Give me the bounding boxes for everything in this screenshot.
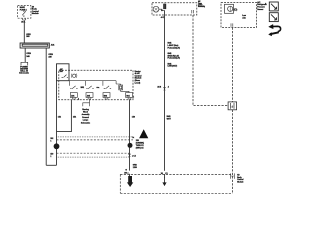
pin B below fuse box (23, 18, 26, 20)
fuse F1 label (20, 6, 28, 11)
page reference icon 1 (269, 2, 278, 11)
svg-text:B02: B02 (104, 95, 107, 97)
grommet dot right (128, 143, 133, 148)
svg-text:1250: 1250 (133, 167, 137, 169)
switch 1 (69, 81, 77, 89)
svg-text:M01: M01 (81, 87, 84, 89)
ground label left (124, 171, 132, 175)
sensor dashed wire down (232, 28, 234, 102)
page reference icon 2 (269, 13, 278, 22)
wire HVAC internal vertical (left long wire) (56, 81, 58, 166)
mechanization dashed wire from pin N (193, 15, 228, 106)
internal bus (69, 80, 116, 82)
svg-text:Assembly: Assembly (82, 113, 90, 116)
svg-text:Module: Module (237, 182, 243, 184)
BCM label (237, 174, 244, 183)
svg-text:2x: 2x (132, 137, 134, 139)
svg-text:4: 4 (78, 97, 79, 100)
wire label ORN 340 (26, 34, 31, 38)
svg-text:30: 30 (161, 173, 163, 175)
wire label ORN 440 (48, 54, 53, 58)
svg-text:Schematics: Schematics (81, 121, 90, 124)
junction symbol on dashed edge (230, 173, 234, 178)
svg-text:A05: A05 (87, 94, 90, 97)
bottom dashed ground box (120, 174, 232, 193)
svg-text:ORN: ORN (26, 53, 31, 55)
svg-text:side: side (242, 17, 245, 19)
warning triangle (139, 129, 148, 138)
sensor transducer circle (228, 6, 233, 11)
svg-text:Level): Level) (135, 82, 141, 84)
svg-text:30 A: 30 A (21, 21, 26, 24)
svg-text:1: 1 (50, 156, 51, 158)
ground arrow 1 (127, 176, 133, 187)
svg-text:4 C1: 4 C1 (161, 16, 165, 19)
svg-text:Schematic: Schematic (19, 72, 30, 75)
wire label mid (167, 115, 172, 120)
svg-text:5-GN (GXY): 5-GN (GXY) (168, 66, 178, 68)
svg-text:Sensor: Sensor (257, 9, 263, 11)
resistor block component (116, 81, 129, 93)
svg-text:Forward: Forward (82, 117, 89, 119)
svg-text:1: 1 (50, 141, 51, 143)
connector bracket under pin 2 (83, 100, 90, 107)
wire compressor down (164, 10, 166, 178)
sensor text (242, 15, 246, 19)
sensor pin (231, 23, 233, 26)
svg-text:(GRY) C4: (GRY) C4 (136, 146, 145, 149)
wire pin4 down (129, 100, 131, 177)
in-line connector on wire (128, 154, 131, 157)
connector reference label (19, 67, 30, 75)
bulkhead dashed lines (57, 137, 134, 157)
label right of grommet (136, 140, 145, 149)
svg-text:Module: Module (32, 13, 40, 15)
compressor clutch coil (153, 6, 159, 12)
pin box 4 (126, 93, 134, 99)
svg-text:x: x (133, 97, 134, 99)
wire label ORN (26, 53, 31, 58)
svg-text:C1: C1 (165, 173, 167, 175)
fuse F1 (underhood fuse block, dashed) (18, 6, 31, 19)
ground arrow 2 (162, 178, 166, 187)
wire bar to connector (24, 48, 26, 62)
relay contact symbols (62, 75, 69, 78)
sensor inner box (225, 4, 234, 13)
svg-text:vm.: vm. (96, 87, 100, 89)
wire pin1 down to long wire (57, 100, 72, 132)
diode element (163, 4, 166, 9)
compressor dashed box (152, 3, 197, 15)
sensor label (257, 1, 267, 11)
svg-text:SW: SW (60, 71, 63, 73)
continuation zigzag arrow (269, 24, 281, 36)
pin box 2 (86, 93, 93, 99)
pin box 1 (70, 93, 79, 101)
svg-text:(O): (O) (234, 8, 238, 12)
wire label block 2 (168, 52, 181, 60)
coil symbol (73, 74, 76, 77)
fuse F1 element (22, 11, 26, 17)
wire bar to HVAC loop (45, 48, 47, 165)
loop bottom joining wires (46, 164, 56, 166)
wire fuse to bar (23, 21, 25, 44)
ground label right (160, 171, 168, 175)
HVAC module dashed box (59, 70, 133, 100)
in-line connector bowtie on wire (163, 87, 165, 90)
splice pack bus bar (20, 43, 49, 48)
in-line connector bracket (21, 62, 28, 65)
svg-text:Lamps: Lamps (83, 120, 88, 122)
compressor pin N (192, 10, 194, 13)
compressor label (198, 0, 205, 8)
A/C pressure sensor dashed box (221, 3, 257, 28)
pin box 3 (103, 93, 110, 99)
wire label block 1 (168, 42, 181, 50)
relay sub-box (57, 64, 70, 81)
label G305 (133, 165, 138, 169)
grommet dot left (54, 143, 60, 149)
svg-text:x C2: x C2 (132, 156, 136, 158)
wire label block 3 (168, 62, 178, 67)
switch 3 (103, 81, 111, 89)
svg-text:A01: A01 (71, 94, 74, 97)
junction connector box (228, 102, 237, 110)
svg-text:Wheel: Wheel (83, 112, 88, 114)
reference label under pin 2 (81, 108, 90, 125)
bulkhead labels (50, 137, 134, 158)
junction dot (161, 10, 163, 12)
svg-text:Podsvable(LH): Podsvable(LH) (168, 58, 181, 60)
relay sub-box labels (60, 68, 64, 73)
svg-text:Cmpr: Cmpr (198, 3, 202, 5)
fuse block label (32, 5, 40, 15)
svg-text:Steering: Steering (82, 108, 89, 111)
switch 2 (86, 81, 94, 89)
HVAC module label (135, 70, 143, 85)
svg-text:Podsvable(LH): Podsvable(LH) (168, 47, 181, 49)
